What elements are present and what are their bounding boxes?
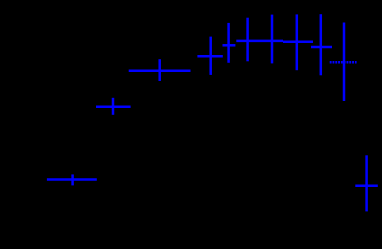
- data point 5 x-error bar: [223, 44, 236, 47]
- data point 3 x-error bar: [129, 70, 191, 73]
- data point 2 y-error bar: [112, 98, 115, 115]
- data point 8 y-error bar: [296, 14, 299, 70]
- data point 10 dashed x-error bar: [330, 61, 357, 64]
- data point 4 x-error bar: [197, 55, 222, 58]
- data point 2 x-error bar: [96, 106, 131, 109]
- data point 4 y-error bar: [209, 37, 212, 75]
- data point 1 x-error bar: [47, 178, 97, 181]
- data point 9 y-error bar: [320, 14, 323, 75]
- data point 9 x-error bar: [311, 46, 332, 49]
- data point 10 y-error bar: [343, 23, 346, 102]
- data point 5 y-error bar: [227, 23, 230, 63]
- data point 6 y-error bar: [246, 18, 249, 62]
- data point 11 y-error bar: [365, 155, 368, 211]
- data point 8 x-error bar: [283, 41, 313, 44]
- data point 1 y-error bar: [71, 174, 74, 185]
- data point 6 x-error bar (merges with point 7 bar): [236, 40, 283, 43]
- data point 11 x-error bar: [355, 184, 378, 187]
- data point 3 y-error bar: [158, 59, 161, 81]
- data point 7 y-error bar: [271, 15, 274, 64]
